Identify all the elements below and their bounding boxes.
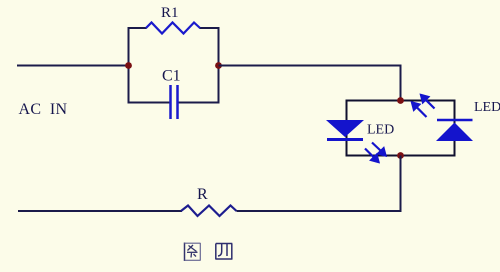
LED left emission arrow 2 <box>365 149 379 163</box>
LED left emission arrow 1 <box>372 143 386 156</box>
wire: RC box top right segment <box>200 27 220 29</box>
wire: RC box right vertical <box>218 27 220 104</box>
wire: LED box left vertical <box>346 100 348 157</box>
LED right: triangle (pointing up) <box>436 123 473 142</box>
wire: vertical down into LED box top <box>400 65 402 102</box>
wire: RC box top left segment <box>128 27 147 29</box>
resistor R zigzag <box>181 206 237 217</box>
svg-text:C1: C1 <box>162 68 181 85</box>
node: right junction dot <box>215 62 222 69</box>
wire: RC box left vertical <box>128 27 130 104</box>
node: LED box bottom junction dot <box>397 152 404 159</box>
caption character: 四 <box>216 244 233 260</box>
svg-text:LED: LED <box>367 123 394 138</box>
wire: LED box top horizontal <box>346 100 456 102</box>
resistor R1 zigzag <box>146 23 200 34</box>
LED right emission arrow 2 <box>412 103 427 118</box>
svg-text:AC IN: AC IN <box>19 101 68 118</box>
wire: bottom horizontal right of R <box>237 210 402 212</box>
wire: vertical from LED box bottom down <box>400 156 402 212</box>
svg-text:R1: R1 <box>161 5 179 21</box>
wire: bottom horizontal left of R <box>18 210 182 212</box>
svg-text:LED: LED <box>474 100 500 115</box>
capacitor C1 left plate <box>169 85 172 119</box>
caption character: 图 <box>185 243 201 262</box>
node: left junction dot <box>125 62 132 69</box>
svg-text:R: R <box>197 186 208 203</box>
wire: LED box right vertical <box>454 100 456 157</box>
LED right: cathode bar <box>437 119 473 122</box>
node: LED box top junction dot <box>397 97 404 104</box>
wire: top horizontal to LED branch <box>219 65 402 67</box>
wire: RC box bottom left segment <box>128 102 170 104</box>
wire: AC input left horizontal <box>17 65 128 67</box>
LED left: cathode bar <box>327 138 363 141</box>
LED left: triangle (cathode down) <box>326 120 364 137</box>
LED right emission arrow 1 <box>421 95 435 109</box>
wire: LED box bottom horizontal <box>346 155 456 157</box>
capacitor C1 right plate <box>176 85 179 119</box>
wire: RC box bottom right segment <box>179 102 220 104</box>
